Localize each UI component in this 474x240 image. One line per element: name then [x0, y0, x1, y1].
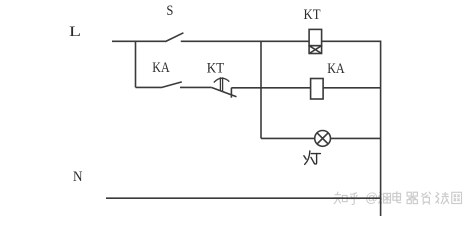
wire lamp row right segment [331, 137, 381, 139]
wire right bus vertical [380, 41, 382, 217]
svg-text:KA: KA [152, 60, 170, 76]
relay coil KT (time relay, with delay element box) [304, 7, 322, 54]
wire N bus [106, 197, 381, 199]
svg-text:L: L [69, 24, 81, 40]
svg-text:KA: KA [327, 61, 345, 77]
relay contact KA (normally open) [152, 60, 182, 88]
svg-text:S: S [166, 3, 173, 19]
svg-text:KT: KT [304, 7, 321, 23]
switch S [165, 3, 183, 41]
node N [73, 169, 83, 185]
relay coil KA [311, 61, 345, 99]
wire row2 right segment to KA coil [231, 87, 310, 89]
wire L bus left segment [112, 40, 166, 42]
wire row2 left segment [136, 86, 162, 88]
wire branch down at node x=261 [260, 41, 262, 139]
time-delay contact KT (normally closed, delayed) [207, 61, 237, 98]
svg-text:N: N [73, 169, 83, 185]
wire row2 middle segment [180, 86, 211, 88]
wire L bus: S to KT coil [181, 40, 309, 42]
wire KA coil to right bus [323, 87, 381, 89]
watermark 知乎 @继电器资缘网 (drawn strokes) [334, 191, 462, 205]
svg-text:KT: KT [207, 61, 225, 77]
wire KT coil to right bus [322, 40, 381, 42]
wire lamp row left segment [261, 137, 315, 139]
lamp 灯 [304, 131, 331, 165]
node L [69, 24, 81, 40]
wire branch down at node x=135.5 [135, 41, 137, 88]
